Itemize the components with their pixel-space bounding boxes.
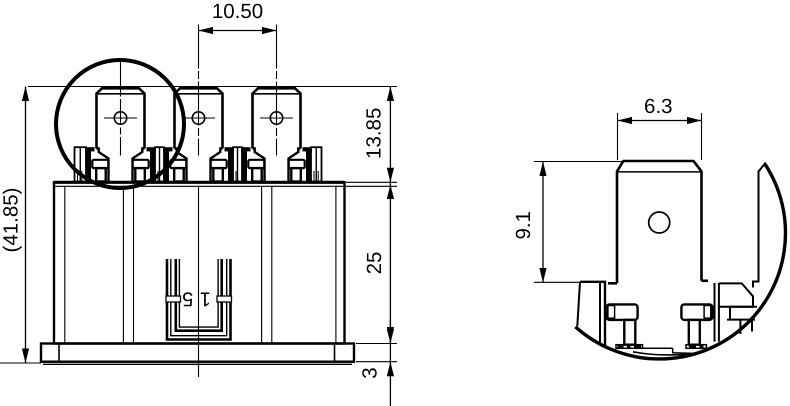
dimension 9.1	[512, 162, 624, 283]
latch gap terminal 3 left	[242, 148, 247, 181]
latch gap terminal 1 left	[86, 148, 91, 181]
terminal blade 2	[175, 88, 223, 181]
clip contact terminal 3 side 1	[289, 160, 305, 168]
latch gap terminal 1 right	[150, 148, 155, 181]
base plate	[41, 344, 354, 365]
housing body outline	[54, 182, 345, 343]
clip contact terminal 1 side 1	[133, 160, 149, 168]
terminal blade 3	[253, 88, 301, 181]
dimension 25	[346, 182, 397, 343]
node centerline body	[198, 186, 200, 377]
detail housing right wall	[715, 163, 766, 342]
svg-text:3: 3	[358, 367, 381, 378]
clip contact terminal 3 side -1	[248, 160, 264, 168]
housing wall wing 2	[155, 147, 164, 181]
notch U-channel right	[217, 296, 232, 302]
housing wall wing 4	[311, 147, 322, 181]
detail blade	[617, 161, 702, 283]
svg-text:13.85: 13.85	[363, 108, 386, 159]
dimension 3	[356, 320, 397, 406]
detail clip right	[681, 304, 712, 344]
svg-text:25: 25	[363, 252, 386, 275]
latch gap terminal 3 right	[306, 148, 311, 181]
svg-text:10.50: 10.50	[212, 0, 263, 23]
detail circle marker	[56, 60, 184, 188]
svg-text:6.3: 6.3	[644, 95, 673, 118]
latch gap terminal 2 left	[164, 148, 169, 181]
wire	[28, 86, 397, 88]
dimension 13.85	[363, 87, 395, 183]
housing wall wing 1	[75, 147, 87, 181]
dimension 6.3	[618, 95, 702, 160]
node centerline T1	[120, 61, 122, 156]
svg-text:(41.85): (41.85)	[0, 188, 23, 253]
dimension 10.50	[199, 0, 277, 34]
terminal blade 1	[97, 88, 145, 181]
U-channel bracket	[167, 259, 231, 340]
housing wall wing 3	[233, 147, 242, 181]
node centerline T3	[276, 25, 278, 156]
clip contact terminal 2 side -1	[170, 160, 186, 168]
notch U-channel left	[166, 296, 181, 302]
svg-text:9.1: 9.1	[512, 211, 535, 240]
clip contact terminal 2 side 1	[211, 160, 227, 168]
detail floor	[616, 345, 706, 355]
detail clip left	[607, 304, 638, 344]
latch gap terminal 2 right	[228, 148, 233, 181]
detail blade bottom steps	[608, 281, 708, 284]
clip contact terminal 1 side -1	[92, 160, 108, 168]
detail view arc boundary	[575, 164, 785, 359]
node centerline T2	[198, 25, 200, 156]
svg-text:15: 15	[176, 287, 211, 309]
detail housing left wall	[577, 282, 605, 345]
dimension (41.85)	[0, 87, 41, 364]
